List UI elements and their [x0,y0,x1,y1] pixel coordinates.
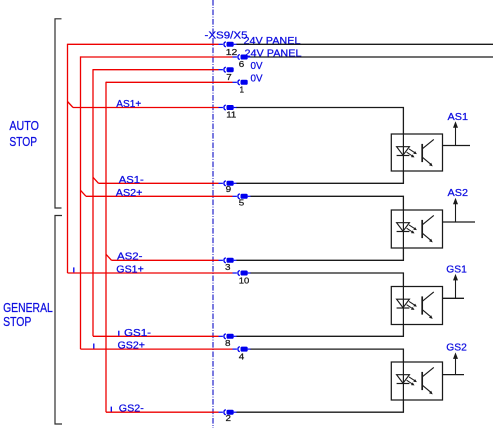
svg-text:GS1: GS1 [446,263,467,275]
terminal -XS9/X5 pin 3 [219,258,238,263]
wire GS1- to pin 8 [93,335,219,337]
optocoupler U2 (AS2) [391,210,442,248]
svg-text:4: 4 [239,351,245,361]
terminal -XS9/X5 pin 7 [219,67,234,72]
junction tick GS1- [118,331,120,336]
terminal -XS9/X5 pin 6 [233,55,252,60]
junction tick GS2+ [93,344,95,349]
wire V3 0V #1 vertical [92,69,94,336]
svg-text:AUTO: AUTO [9,118,39,133]
label AUTO STOP [9,118,39,149]
junction branch AS2- from V4 [106,254,112,260]
optocoupler U3 (GS1) [391,287,442,325]
svg-text:GS2-: GS2- [119,404,144,415]
svg-text:24V PANEL: 24V PANEL [244,36,301,47]
wire 24V PANEL #2 horizontal to pin 6 [81,56,233,58]
svg-text:AS1+: AS1+ [116,99,141,110]
terminal -XS9/X5 pin 8 [219,334,238,339]
terminal -XS9/X5 pin 10 [233,271,252,276]
wire AS1+ to pin 11 [73,107,219,109]
signal arrow GS2 [453,352,458,374]
terminal -XS9/X5 pin 9 [219,181,238,186]
wire AS2+ to pin 5 [86,195,233,197]
wire 24V PANEL (pin 12) to right edge [237,43,493,45]
junction tick GS2- [110,407,112,412]
wire U2 cathode to AS2- terminal [237,248,404,260]
svg-text:3: 3 [225,262,231,272]
terminal -XS9/X5 pin 11 [219,105,238,110]
svg-text:11: 11 [226,110,236,120]
wire GS1+ terminal to U3 anode [251,273,404,287]
svg-text:6: 6 [239,59,245,69]
bracket AUTO STOP group [55,19,62,208]
wire U2 output AS2 [443,221,476,223]
svg-text:10: 10 [239,276,250,286]
wire 0V #2 horizontal to pin 1 [106,81,233,83]
wire AS2- to pin 3 [112,259,219,261]
svg-text:AS1-: AS1- [119,175,144,186]
svg-text:0V: 0V [251,73,263,84]
wire V4 0V #2 vertical [105,82,107,413]
svg-text:AS2+: AS2+ [116,188,143,199]
separation line (panel boundary) [212,0,214,428]
wire AS2+ terminal to U2 anode [251,196,404,210]
wire U3 output GS1 [443,297,465,299]
svg-text:9: 9 [226,184,232,194]
svg-text:GS1+: GS1+ [116,264,144,275]
signal arrow AS1 [453,121,458,145]
wire AS1- to pin 9 [99,182,219,184]
optocoupler U1 (AS1) [391,134,442,171]
junction branch AS1+ from V1 [68,102,74,108]
wire 24V PANEL #1 horizontal to pin 12 [68,43,219,45]
terminal -XS9/X5 pin 12 [219,42,238,47]
svg-text:-XS9/X5: -XS9/X5 [205,30,248,42]
wire U4 output GS2 [443,374,465,376]
terminal -XS9/X5 pin 1 [233,80,248,85]
svg-text:2: 2 [226,413,232,423]
wire U1 cathode to AS1- terminal [237,171,404,183]
svg-text:GS2: GS2 [446,341,467,353]
svg-text:GENERAL: GENERAL [3,300,53,315]
terminal -XS9/X5 pin 4 [233,347,252,352]
svg-text:0V: 0V [251,61,263,72]
svg-text:STOP: STOP [3,314,31,329]
svg-text:1: 1 [240,85,245,95]
terminal -XS9/X5 pin 2 [219,410,238,415]
signal arrow AS2 [453,198,458,222]
svg-text:5: 5 [239,197,245,207]
svg-text:GS2+: GS2+ [118,341,146,352]
wire U3 cathode to GS1- terminal [237,325,404,337]
wire 24V PANEL (pin 6) to right edge [251,56,493,58]
svg-text:AS2: AS2 [448,187,469,199]
junction branch AS2+ from V2 [81,190,87,196]
svg-text:AS2-: AS2- [117,252,143,263]
junction branch AS1- from V3 [93,177,99,183]
label GENERAL STOP [3,300,53,329]
svg-text:AS1: AS1 [448,111,469,123]
svg-text:12: 12 [226,47,238,57]
wire GS1+ to pin 10 [68,272,233,274]
wire GS2+ to pin 4 [81,348,233,350]
terminal -XS9/X5 pin 5 [233,194,252,199]
bracket GENERAL STOP group [55,216,62,425]
wire GS2+ terminal to U4 anode [251,349,404,362]
wire U4 cathode to GS2- terminal [237,400,404,412]
wire U1 output AS1 [443,145,471,147]
optocoupler U4 (GS2) [391,362,442,400]
wire V2 24V PANEL #2 vertical [80,56,82,349]
svg-text:8: 8 [225,338,231,348]
wire V1 24V PANEL #1 vertical [67,44,69,273]
wire 0V #1 horizontal to pin 7 [93,69,219,71]
svg-text:STOP: STOP [9,134,37,149]
junction tick GS1+ [73,267,75,272]
svg-text:24V PANEL: 24V PANEL [245,48,302,59]
svg-text:7: 7 [226,72,232,82]
signal arrow GS1 [453,274,458,298]
svg-text:GS1-: GS1- [124,328,151,339]
wire GS2- to pin 2 [106,411,219,413]
wire AS1+ terminal to U1 anode [237,108,404,135]
